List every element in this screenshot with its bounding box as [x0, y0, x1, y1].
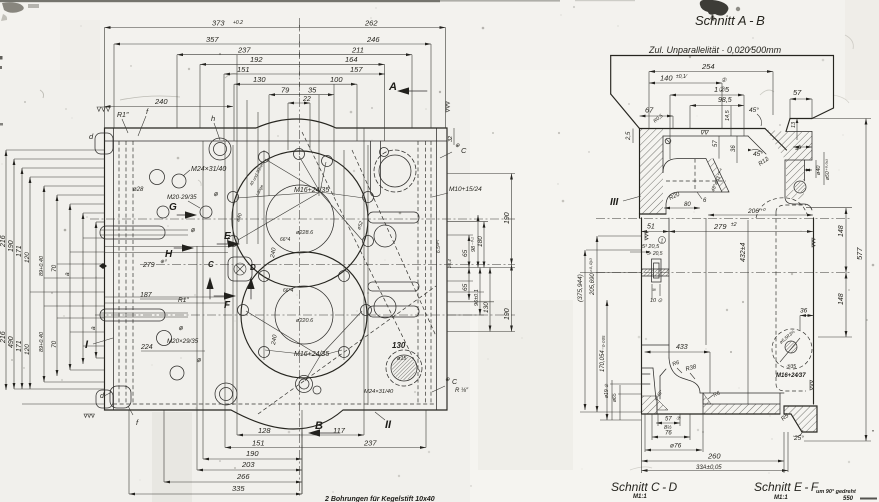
- E-F foot block: [784, 406, 817, 432]
- dim 33A: [642, 470, 789, 472]
- bore mouth chamfer: [659, 376, 661, 399]
- left column foot hatch: [642, 396, 658, 414]
- svg-text:⊕: ⊕: [455, 143, 460, 149]
- svg-text:2,5: 2,5: [626, 131, 632, 141]
- svg-text:357: 357: [206, 35, 219, 44]
- svg-text:M10+15/24: M10+15/24: [449, 186, 482, 193]
- section A-B bottom edge: [639, 214, 641, 218]
- dim 432+-4 vertical: [747, 220, 749, 404]
- svg-text:260: 260: [707, 452, 721, 461]
- svg-text:D: D: [250, 263, 256, 272]
- svg-text:279: 279: [713, 222, 727, 231]
- svg-text:22: 22: [302, 96, 311, 103]
- svg-text:a: a: [90, 326, 97, 330]
- hole h double: [209, 138, 231, 160]
- svg-text:R1″: R1″: [178, 297, 189, 304]
- interior shelf lines upper: [105, 246, 229, 248]
- svg-text:51: 51: [647, 224, 655, 231]
- svg-text:Schnitt E - F: Schnitt E - F: [754, 480, 819, 494]
- svg-text:65: 65: [462, 249, 469, 257]
- svg-text:211: 211: [351, 46, 364, 55]
- svg-text:5³ 20,5: 5³ 20,5: [642, 244, 660, 250]
- svg-text:190: 190: [504, 308, 511, 320]
- top dim extension verticals: [104, 28, 106, 129]
- dim o76: [645, 449, 702, 451]
- surface marks top left: [97, 107, 101, 111]
- faint grey bands: [152, 412, 192, 502]
- dashed bore verticals: [775, 212, 777, 384]
- svg-text:ø65: ø65: [612, 393, 618, 402]
- svg-text:C: C: [461, 146, 467, 155]
- svg-text:100: 100: [330, 75, 343, 84]
- svg-text:262: 262: [364, 18, 378, 27]
- dimension row 266: [164, 481, 302, 483]
- margin extension horizontals: [586, 249, 642, 251]
- dimension row 130 / 100: [234, 83, 357, 85]
- svg-text:70: 70: [51, 340, 58, 348]
- datum circle on plate: [665, 138, 671, 144]
- holes G row: [157, 206, 169, 218]
- scan ink blob top middle: [700, 0, 729, 16]
- svg-text:M20×29/35: M20×29/35: [167, 338, 199, 345]
- bearing pocket outline: [642, 344, 670, 346]
- leader star lower M16: [265, 350, 320, 356]
- dimension row 357 / 246: [114, 43, 431, 45]
- svg-text:ø40: ø40: [816, 165, 822, 175]
- svg-text:M20·29/35: M20·29/35: [167, 194, 197, 201]
- svg-text:ø50⁺⁰⋅⁰⁴³: ø50⁺⁰⋅⁰⁴³: [825, 159, 831, 180]
- dim 148 upper: [845, 208, 847, 337]
- dim 67: [640, 115, 674, 117]
- svg-text:79: 79: [281, 86, 290, 95]
- dim 80 under cavity: [664, 207, 700, 209]
- svg-text:57: 57: [665, 417, 672, 423]
- svg-text:35: 35: [308, 86, 317, 95]
- right column below lip: [784, 160, 786, 197]
- svg-text:433: 433: [676, 344, 688, 351]
- svg-text:279: 279: [142, 262, 155, 269]
- upper bore circle: [232, 151, 368, 287]
- svg-text:240: 240: [154, 97, 168, 106]
- right dim columns of left view: [468, 235, 470, 300]
- dimension row 190: [203, 458, 302, 460]
- svg-text:373: 373: [212, 18, 225, 27]
- dim 577: [865, 119, 867, 442]
- dim 433: [645, 351, 711, 353]
- bottom right dark dash: [860, 498, 877, 500]
- svg-text:66°4: 66°4: [283, 288, 294, 294]
- svg-text:(375,944): (375,944): [577, 274, 584, 302]
- hole M24 top left: [172, 174, 186, 188]
- svg-text:ø76: ø76: [670, 443, 682, 450]
- svg-text:130: 130: [392, 341, 406, 350]
- svg-text:80: 80: [684, 202, 691, 208]
- interior verticals bolt columns: [232, 145, 234, 405]
- scan smudge top edge: [0, 0, 440, 2]
- svg-text:157: 157: [350, 65, 363, 74]
- svg-text:65: 65: [462, 283, 469, 291]
- cavity dashed internals: [666, 180, 726, 182]
- svg-text:490: 490: [8, 336, 15, 348]
- svg-text:②: ②: [721, 77, 727, 84]
- svg-text:a: a: [64, 272, 71, 276]
- right margin extensions: [812, 118, 871, 120]
- hole o28: [150, 170, 165, 185]
- surface marks top right: [446, 102, 450, 112]
- circled 1: [659, 237, 666, 244]
- svg-text:224: 224: [140, 344, 153, 351]
- svg-text:130: 130: [483, 302, 490, 313]
- svg-text:M24×31/40: M24×31/40: [364, 389, 394, 395]
- svg-text:45°: 45°: [753, 150, 763, 158]
- svg-text:432±4: 432±4: [740, 242, 747, 262]
- left view part outline: [105, 119, 448, 429]
- dimension row 128 / 117: [237, 434, 364, 436]
- svg-text:h: h: [211, 114, 215, 123]
- slot bars right mid: [368, 282, 419, 291]
- dimension row 192 / 164: [200, 63, 385, 65]
- left view inner left edge: [113, 128, 115, 410]
- long feature verticals through part: [202, 141, 204, 459]
- svg-text:5¹ 20,5: 5¹ 20,5: [647, 251, 663, 257]
- upper bore inner circle: [266, 185, 334, 253]
- small hole top right: [380, 148, 389, 157]
- surface marks on column: [645, 231, 648, 240]
- scan blotch top-left corner: [2, 2, 24, 13]
- svg-text:254: 254: [701, 62, 715, 71]
- svg-text:170,054₋₀.₀₀₅: 170,054₋₀.₀₀₅: [600, 335, 606, 372]
- svg-text:14,5: 14,5: [725, 109, 731, 121]
- left dimension columns: [5, 150, 7, 390]
- svg-text:190: 190: [504, 212, 511, 224]
- left edge dark marks: [0, 56, 3, 60]
- svg-text:±2: ±2: [731, 222, 737, 228]
- dimension row 22: [288, 102, 310, 104]
- svg-text:98,5: 98,5: [718, 97, 732, 104]
- svg-text:36: 36: [800, 308, 808, 315]
- dimension row 79 / 35: [269, 94, 334, 96]
- right block hatch: [766, 130, 812, 160]
- dim (375,944): [584, 250, 586, 410]
- svg-text:M16+24/35: M16+24/35: [294, 351, 329, 358]
- horizontal centerline lower: [596, 272, 852, 274]
- svg-text:57: 57: [793, 88, 802, 97]
- section A-B top plate: [640, 128, 766, 130]
- slot bars right lower: [368, 306, 419, 317]
- lower bore inner circle: [275, 286, 333, 344]
- svg-text:89+0.40: 89+0.40: [39, 255, 45, 276]
- slot bars left lower: [100, 309, 165, 321]
- svg-text:M24×31/40: M24×31/40: [191, 166, 226, 173]
- left dim horizontal extensions: [6, 149, 105, 151]
- holes right column: [374, 225, 396, 247]
- dimension row 240: [105, 106, 234, 108]
- datum arrow up D: [247, 277, 254, 289]
- slot bars right upper: [368, 212, 419, 223]
- svg-text:98⁻⁰⋅¹: 98⁻⁰⋅¹: [470, 237, 477, 252]
- flange face line: [700, 392, 784, 394]
- datum arrow up C: [206, 277, 213, 289]
- bottom-left corner pocket: [110, 386, 131, 408]
- svg-text:ø28: ø28: [133, 187, 144, 193]
- svg-text:237: 237: [237, 46, 251, 55]
- svg-text:335: 335: [232, 484, 245, 493]
- bolt detail on column: [652, 259, 662, 282]
- svg-text:Schnitt C - D: Schnitt C - D: [611, 480, 677, 494]
- svg-text:266: 266: [236, 472, 250, 481]
- lower left column edges: [641, 218, 643, 413]
- svg-text:237: 237: [363, 438, 377, 447]
- svg-text:M16+24/35: M16+24/35: [294, 187, 329, 194]
- svg-text:151: 151: [237, 65, 250, 74]
- dim 260: [642, 460, 785, 462]
- svg-text:Zul. Unparallelität · 0,020⁄50: Zul. Unparallelität · 0,020⁄500mm: [648, 45, 782, 55]
- svg-text:36: 36: [731, 145, 737, 152]
- svg-text:⑤35: ⑤35: [786, 364, 796, 370]
- svg-text:171: 171: [16, 340, 23, 352]
- cavity profile: [663, 159, 706, 173]
- svg-text:96±0.1: 96±0.1: [474, 289, 480, 306]
- lower bottom edge: [642, 413, 781, 415]
- svg-text:Schnitt A - B: Schnitt A - B: [695, 13, 765, 28]
- dimension row 203: [197, 469, 302, 471]
- dimension row 237 / 211: [177, 54, 412, 56]
- dim 57 small: [656, 422, 680, 424]
- dimension row 151 / 237: [225, 447, 426, 449]
- svg-text:E: E: [224, 231, 231, 242]
- svg-text:117: 117: [333, 426, 346, 435]
- fillet profile R6 R38: [669, 358, 700, 393]
- dim 254: [649, 71, 773, 73]
- section A-B outer top outline: [611, 55, 834, 57]
- svg-text:171: 171: [16, 245, 23, 257]
- surface marks right: [810, 380, 813, 390]
- svg-text:2 Bohrungen für Kegelstift 10x: 2 Bohrungen für Kegelstift 10x40: [324, 496, 435, 502]
- small hatched wedge: [657, 399, 668, 410]
- right dim extensions: [447, 173, 515, 175]
- svg-text:um 90° gedreht: um 90° gedreht: [816, 489, 857, 495]
- svg-text:C: C: [208, 260, 214, 269]
- svg-text:II: II: [385, 419, 392, 431]
- thread bore in right column: [793, 180, 807, 194]
- svg-text:57: 57: [713, 140, 719, 147]
- lower dim extension verticals: [641, 414, 643, 473]
- svg-text:³⁸: ³⁸: [652, 288, 656, 294]
- left view inner bottom dashed edge: [113, 403, 436, 405]
- svg-text:R ⅛″: R ⅛″: [455, 388, 469, 394]
- leader star upper M16: [265, 159, 320, 192]
- dim 76a: [652, 436, 690, 438]
- svg-text:ø19 ⊙: ø19 ⊙: [604, 383, 610, 398]
- pocket vertical: [705, 218, 707, 345]
- svg-text:+0.2: +0.2: [233, 20, 243, 26]
- bore mouth edges: [656, 396, 658, 414]
- left view inner top edge: [105, 140, 448, 142]
- surface marks bottom left: [84, 414, 87, 418]
- centerline vertical: [299, 18, 301, 497]
- dimension row 151 / 157: [224, 73, 385, 75]
- dim 36 foot: [800, 315, 814, 317]
- section A-B left wall: [639, 129, 641, 215]
- top-left corner pocket: [95, 133, 113, 154]
- chamfer wedge right of bore: [703, 393, 711, 404]
- dim 51 / 279: [641, 231, 669, 233]
- svg-text:G: G: [169, 202, 177, 213]
- holes lower left: [157, 331, 172, 346]
- dimension row 335: [129, 493, 302, 495]
- svg-text:205,690⁺⁰⋅⁰³⁰: 205,690⁺⁰⋅⁰³⁰: [589, 257, 596, 296]
- svg-text:III: III: [610, 197, 619, 208]
- svg-text:76: 76: [665, 431, 672, 437]
- left view dashed verticals left: [118, 141, 120, 404]
- svg-text:⊕⁰: ⊕⁰: [160, 259, 167, 265]
- dim extension verticals AB: [648, 72, 650, 130]
- svg-text:190: 190: [8, 240, 15, 252]
- interior shelf lines lower: [105, 296, 229, 298]
- svg-text:148: 148: [838, 293, 845, 305]
- column flange cross-hatch band: [642, 269, 669, 276]
- dimension row 373 / 262: [105, 27, 446, 29]
- svg-text:±0,1⁄: ±0,1⁄: [676, 74, 688, 80]
- bolt holes lower bore: [259, 271, 270, 282]
- svg-text:32: 32: [448, 136, 454, 142]
- slot bars left upper: [100, 226, 165, 239]
- bolt holes upper bore: [259, 152, 270, 163]
- svg-text:26,4: 26,4: [447, 259, 452, 269]
- hole bottom left double: [215, 383, 237, 405]
- svg-text:1: 1: [661, 239, 664, 245]
- gap edges between C-D and E-F: [779, 393, 781, 414]
- dashed bore arc below thread: [756, 198, 807, 218]
- svg-text:246: 246: [366, 35, 380, 44]
- svg-text:192: 192: [250, 55, 263, 64]
- svg-text:216: 216: [0, 331, 7, 344]
- svg-text:180: 180: [477, 236, 484, 247]
- svg-text:128: 128: [258, 426, 271, 435]
- svg-text:A: A: [388, 81, 397, 93]
- svg-text:R1″: R1″: [117, 112, 129, 119]
- right side: outer vertical: [813, 218, 815, 404]
- svg-text:206⁺⁰: 206⁺⁰: [747, 208, 766, 215]
- svg-text:F: F: [224, 300, 231, 311]
- centerline horizontal upper bore: [90, 218, 515, 220]
- dim 170,054: [606, 300, 608, 420]
- svg-text:ø15: ø15: [397, 356, 407, 362]
- lower bore circle: [241, 252, 367, 378]
- vertical slot top right: [371, 141, 381, 197]
- svg-text:577: 577: [855, 247, 864, 260]
- hole top right bore M10: [379, 155, 411, 187]
- svg-text:550: 550: [843, 496, 854, 502]
- svg-text:148: 148: [838, 225, 845, 237]
- dim 205,690: [596, 236, 598, 412]
- dim 155: [670, 94, 744, 96]
- svg-text:M16+24⁄37: M16+24⁄37: [776, 373, 806, 379]
- dashed diagonal 1: [302, 132, 420, 372]
- flange hatch band: [703, 404, 780, 414]
- svg-text:190: 190: [246, 449, 259, 458]
- svg-text:25°: 25°: [793, 434, 804, 442]
- svg-text:⊕: ⊕: [445, 377, 450, 383]
- svg-text:203: 203: [241, 460, 255, 469]
- svg-text:6.5ᴺᴾᵀ: 6.5ᴺᴾᵀ: [436, 238, 442, 253]
- svg-text:70: 70: [51, 264, 58, 272]
- datum square left edge: [99, 263, 107, 269]
- svg-text:33A±0,05: 33A±0,05: [696, 465, 722, 471]
- svg-text:140: 140: [660, 74, 673, 83]
- dashed diagonal 2: [258, 286, 436, 414]
- centerline horizontal lower bore: [95, 314, 515, 316]
- svg-text:ø220.6: ø220.6: [296, 318, 314, 324]
- dashed diagonal 3: [352, 150, 436, 336]
- svg-text:164: 164: [345, 55, 358, 64]
- dim 206: [708, 214, 813, 216]
- svg-text:216: 216: [0, 235, 7, 248]
- svg-text:151: 151: [252, 438, 265, 447]
- bottom centre hole pair: [296, 376, 313, 393]
- left wall hatch: [640, 129, 663, 214]
- dim 140: [649, 82, 722, 84]
- svg-text:187: 187: [140, 292, 153, 299]
- centerline A-B: [596, 218, 852, 220]
- bottom dim extension verticals: [128, 410, 130, 494]
- svg-text:ø228.6: ø228.6: [296, 230, 314, 236]
- svg-text:66°4: 66°4: [280, 237, 291, 243]
- hole bottom right M24 with thread hatch: [391, 355, 417, 381]
- svg-text:M1:1: M1:1: [774, 495, 788, 501]
- svg-text:120: 120: [24, 252, 31, 263]
- cavity wedge: [706, 159, 722, 192]
- centerline horizontal mid: [140, 264, 515, 266]
- svg-text:67: 67: [645, 106, 654, 115]
- left view dashed verticals right: [417, 141, 419, 404]
- M16 hole dashed circle lower right: [772, 329, 812, 369]
- section A-B right lip: [790, 118, 812, 120]
- svg-text:130: 130: [253, 75, 266, 84]
- faint smudge strokes: [120, 96, 180, 100]
- left view inner right edge: [436, 128, 438, 410]
- svg-text:89+0.40: 89+0.40: [39, 331, 45, 352]
- svg-text:M1:1: M1:1: [633, 494, 647, 500]
- dim 98,5: [690, 105, 744, 107]
- bottom-left corner pocket outer: [96, 390, 113, 408]
- svg-text:45°: 45°: [749, 106, 759, 114]
- dim 57 right: [790, 98, 812, 100]
- svg-text:120: 120: [24, 344, 31, 355]
